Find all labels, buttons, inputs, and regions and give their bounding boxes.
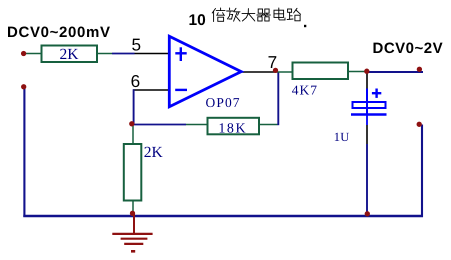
svg-text:1U: 1U: [334, 130, 350, 144]
svg-text:18K: 18K: [218, 122, 247, 137]
svg-text:DCV0~2V: DCV0~2V: [373, 40, 444, 57]
svg-text:10: 10: [189, 12, 206, 29]
svg-text:6: 6: [131, 71, 141, 91]
svg-text:OP07: OP07: [206, 95, 241, 110]
svg-text:2K: 2K: [60, 46, 80, 63]
svg-text:DCV0~200mV: DCV0~200mV: [7, 24, 111, 41]
svg-text:5: 5: [132, 35, 142, 55]
svg-text:7: 7: [268, 52, 278, 72]
svg-text:2K: 2K: [144, 144, 164, 161]
svg-text:4K7: 4K7: [292, 83, 318, 98]
